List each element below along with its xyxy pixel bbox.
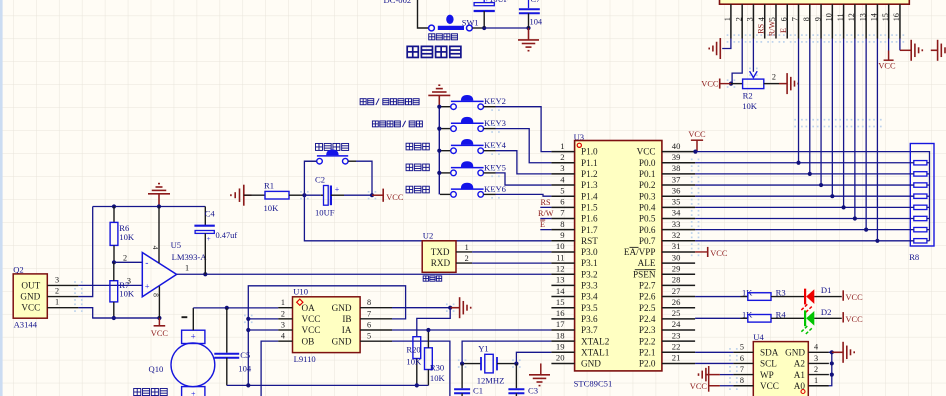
svg-text:OA: OA xyxy=(302,303,316,313)
svg-text:28: 28 xyxy=(672,275,681,285)
svg-text:GND: GND xyxy=(332,303,352,313)
svg-text:C3: C3 xyxy=(528,386,538,396)
svg-text:36: 36 xyxy=(672,185,681,195)
svg-text:1: 1 xyxy=(185,263,189,272)
svg-text:XTAL2: XTAL2 xyxy=(581,336,610,346)
wire Q2 OUT to opamp + xyxy=(78,284,142,286)
svg-text:P2.7: P2.7 xyxy=(639,281,656,291)
power VCC xyxy=(842,312,844,322)
svg-text:RST: RST xyxy=(581,236,598,246)
wire xyxy=(356,161,372,195)
svg-text:7: 7 xyxy=(740,365,744,374)
svg-text:XTAL1: XTAL1 xyxy=(581,347,610,357)
svg-text:PSEN: PSEN xyxy=(633,269,656,279)
svg-text:22: 22 xyxy=(672,342,681,352)
wire LCD pin2 to pot xyxy=(732,39,742,84)
svg-text:P3.4: P3.4 xyxy=(581,292,598,302)
svg-text:P2.4: P2.4 xyxy=(639,314,656,324)
svg-text:10K: 10K xyxy=(742,101,758,111)
LED D1 xyxy=(800,285,842,313)
label 双掷开关 xyxy=(429,34,458,40)
resistor network R8 xyxy=(909,144,934,263)
svg-text:P3.3: P3.3 xyxy=(581,281,598,291)
wire P0.3 bus xyxy=(695,195,914,197)
svg-text:P0.0: P0.0 xyxy=(639,158,656,168)
svg-text:ALE: ALE xyxy=(638,258,656,268)
svg-text:P3.2: P3.2 xyxy=(581,269,598,279)
connector U2 TXD/RXD xyxy=(422,231,472,273)
wire xyxy=(496,173,552,185)
svg-text:11: 11 xyxy=(556,252,564,262)
svg-text:16: 16 xyxy=(892,13,901,21)
wire U10 pin2 VCC xyxy=(248,318,278,320)
svg-text:GND: GND xyxy=(785,348,805,358)
wire VCC to R8 common xyxy=(695,152,929,241)
svg-text:1: 1 xyxy=(723,17,732,21)
wire P0.5 bus xyxy=(695,218,914,220)
ground xyxy=(709,38,720,59)
wire LCD data drop xyxy=(820,39,822,186)
svg-text:2: 2 xyxy=(123,253,127,262)
capacitor C4 0.47uf xyxy=(194,207,237,275)
resistor R30 10K xyxy=(425,330,446,385)
wire xyxy=(496,151,552,174)
svg-text:9: 9 xyxy=(560,230,564,240)
svg-text:LM393-A: LM393-A xyxy=(172,252,208,262)
svg-text:0.47uf: 0.47uf xyxy=(216,231,238,240)
svg-text:3: 3 xyxy=(560,163,564,173)
wire P0.1 bus xyxy=(695,173,914,175)
wire P0.0 bus xyxy=(695,162,914,164)
svg-text:29: 29 xyxy=(672,263,681,273)
svg-text:RXD: RXD xyxy=(431,258,451,268)
svg-text:U5: U5 xyxy=(171,240,182,250)
wire LCD pin15 to VCC xyxy=(888,39,890,51)
junction xyxy=(112,260,116,264)
svg-text:P1.2: P1.2 xyxy=(581,169,598,179)
svg-text:VCC: VCC xyxy=(690,382,708,391)
junction xyxy=(203,272,207,276)
svg-text:P0.7: P0.7 xyxy=(639,236,656,246)
op-amp U5 LM393-A xyxy=(123,207,207,319)
junction xyxy=(482,26,486,30)
wire gnd rail xyxy=(93,206,206,208)
power VCC at EA/VPP xyxy=(695,251,708,253)
svg-text:U2: U2 xyxy=(423,231,434,241)
svg-text:P2.2: P2.2 xyxy=(639,336,656,346)
eeprom U4 xyxy=(733,332,829,396)
junction xyxy=(808,172,812,176)
svg-text:IB: IB xyxy=(342,314,351,324)
svg-text:KEY5: KEY5 xyxy=(484,162,506,172)
svg-text:SCL: SCL xyxy=(760,359,777,369)
svg-text:P3.6: P3.6 xyxy=(581,314,598,324)
svg-text:2: 2 xyxy=(560,152,564,162)
pushbutton KEY4 xyxy=(440,139,507,154)
svg-text:P0.3: P0.3 xyxy=(639,191,656,201)
wire xyxy=(496,129,552,163)
svg-text:R8: R8 xyxy=(909,252,919,262)
wire vcc rail xyxy=(93,317,160,319)
connector LCD header (cut at top) xyxy=(720,0,910,39)
svg-text:C4: C4 xyxy=(205,208,216,218)
LED D2 xyxy=(800,307,842,335)
ground xyxy=(428,85,450,107)
wire P0.6 bus xyxy=(695,229,914,231)
svg-text:P1.3: P1.3 xyxy=(581,180,598,190)
ground at MCU pin20 xyxy=(540,363,542,374)
svg-text:SDA: SDA xyxy=(760,348,779,358)
svg-text:37: 37 xyxy=(672,174,681,184)
svg-text:32: 32 xyxy=(672,230,681,240)
resistor R4 1K xyxy=(695,309,805,322)
junction xyxy=(853,216,857,220)
svg-text:P2.6: P2.6 xyxy=(639,292,656,302)
label key KEY3 chinese xyxy=(372,121,422,127)
svg-text:R/W: R/W xyxy=(538,209,554,218)
ground xyxy=(832,342,854,363)
capacitor C2 10UF xyxy=(304,174,372,217)
svg-text:40: 40 xyxy=(672,141,681,151)
junction xyxy=(842,205,846,209)
svg-text:2: 2 xyxy=(734,17,743,21)
svg-text:VCC: VCC xyxy=(701,79,719,88)
svg-text:KEY6: KEY6 xyxy=(484,184,507,194)
svg-text:8: 8 xyxy=(802,17,811,21)
pushbutton KEY5 xyxy=(440,161,506,176)
svg-text:2: 2 xyxy=(772,72,776,81)
mcu U3 STC89C51 xyxy=(551,132,695,388)
svg-text:VCC: VCC xyxy=(637,147,656,157)
svg-text:8: 8 xyxy=(740,376,744,385)
svg-text:10K: 10K xyxy=(119,232,135,242)
wire LCD pin16 to ground xyxy=(899,39,901,51)
wire VCC pin8 xyxy=(720,385,734,387)
ground (right edge) xyxy=(931,40,946,61)
selection marks xyxy=(74,34,904,390)
wire U10 pin4 OB down xyxy=(261,341,278,396)
wire P0.4 bus xyxy=(695,206,914,208)
svg-text:3: 3 xyxy=(746,17,755,21)
svg-text:P0.4: P0.4 xyxy=(639,202,656,212)
svg-text:VCC: VCC xyxy=(302,314,321,324)
svg-text:6: 6 xyxy=(560,197,565,207)
wire Q2 GND up to gnd rail xyxy=(78,207,92,297)
wire P0.7 bus xyxy=(695,240,914,242)
power VCC xyxy=(382,189,384,202)
label 下载口 xyxy=(423,276,442,281)
svg-text:D2: D2 xyxy=(821,307,832,317)
ground xyxy=(911,40,922,61)
wire xyxy=(496,107,552,152)
svg-text:19: 19 xyxy=(556,342,565,352)
svg-text:1: 1 xyxy=(281,298,285,307)
resistor R1 10K xyxy=(244,180,305,213)
svg-text:P1.1: P1.1 xyxy=(581,158,598,168)
svg-text:4: 4 xyxy=(814,343,818,352)
junction xyxy=(437,171,441,175)
svg-text:Q2: Q2 xyxy=(13,264,24,274)
capacitor C1 xyxy=(454,364,483,396)
svg-text:+: + xyxy=(191,332,196,342)
svg-text:18: 18 xyxy=(556,330,565,340)
svg-text:10K: 10K xyxy=(406,357,422,367)
svg-text:A1: A1 xyxy=(794,370,806,380)
svg-text:3: 3 xyxy=(814,354,818,363)
svg-text:VCC: VCC xyxy=(21,303,40,313)
wire LCD data drop xyxy=(798,39,800,163)
svg-text:GND: GND xyxy=(581,359,601,369)
wire RST net xyxy=(304,195,551,241)
svg-text:1: 1 xyxy=(560,141,564,151)
power VCC xyxy=(842,290,844,300)
junction xyxy=(437,105,441,109)
svg-text:Y1: Y1 xyxy=(478,344,489,354)
svg-text:16: 16 xyxy=(556,308,565,318)
svg-text:RS: RS xyxy=(540,198,550,207)
capacitor 10UF (electrolytic, cut at top) xyxy=(474,0,509,28)
svg-text:R30: R30 xyxy=(430,363,444,373)
wire U10 pin5 GND down xyxy=(392,341,450,396)
wire U2 pin2 to P3.1 xyxy=(472,262,551,264)
svg-text:GND: GND xyxy=(332,336,352,346)
svg-text:12MHZ: 12MHZ xyxy=(477,376,505,386)
wire xyxy=(484,27,528,29)
junction xyxy=(370,193,374,197)
junction xyxy=(225,306,229,310)
svg-text:R20: R20 xyxy=(406,345,420,355)
svg-text:D1: D1 xyxy=(821,285,832,295)
svg-text:14: 14 xyxy=(556,286,565,296)
svg-text:30: 30 xyxy=(672,252,681,262)
svg-text:P1.7: P1.7 xyxy=(581,225,598,235)
svg-text:4: 4 xyxy=(757,17,766,21)
svg-text:25: 25 xyxy=(672,308,681,318)
svg-text:24: 24 xyxy=(672,319,681,329)
svg-text:R2: R2 xyxy=(743,91,753,101)
junction xyxy=(112,204,116,208)
svg-text:13: 13 xyxy=(556,275,565,285)
capacitor C5 104 xyxy=(214,308,252,386)
wire U10 pin3 VCC xyxy=(248,329,278,331)
svg-text:EA/VPP: EA/VPP xyxy=(624,247,656,257)
svg-text:GND: GND xyxy=(20,292,40,302)
svg-text:38: 38 xyxy=(672,163,681,173)
ground xyxy=(528,28,530,40)
resistor R3 1K xyxy=(695,288,805,301)
svg-text:5: 5 xyxy=(740,343,744,352)
wire LCD data drop xyxy=(854,39,856,219)
pushbutton KEY6 xyxy=(440,183,507,198)
junction xyxy=(875,239,879,243)
junction xyxy=(460,362,464,366)
svg-text:VCC: VCC xyxy=(878,61,896,70)
svg-text:7: 7 xyxy=(791,17,800,21)
junction xyxy=(693,150,697,154)
svg-text:C2: C2 xyxy=(315,174,325,184)
wire xyxy=(418,0,429,28)
svg-text:P2.3: P2.3 xyxy=(639,325,656,335)
svg-text:VCC: VCC xyxy=(386,193,404,202)
wire XTAL2 xyxy=(462,341,551,363)
junction xyxy=(302,193,306,197)
svg-text:P0.5: P0.5 xyxy=(639,214,656,224)
svg-text:Q10: Q10 xyxy=(149,364,164,374)
svg-text:2: 2 xyxy=(814,365,818,374)
junction xyxy=(246,317,250,321)
svg-text:6: 6 xyxy=(367,320,371,329)
wire LCD data drop xyxy=(843,39,845,208)
svg-text:P1.5: P1.5 xyxy=(581,202,598,212)
junction xyxy=(526,26,530,30)
wire bottom rail xyxy=(227,384,429,386)
resistor R20 10K xyxy=(406,337,422,386)
wire U10 pin6 IA to P3.7 xyxy=(392,329,551,331)
junction xyxy=(448,306,452,310)
resistor R7 10K xyxy=(110,262,135,318)
svg-text:C7: C7 xyxy=(531,0,541,4)
power VCC rail for WP/VCC xyxy=(709,366,720,392)
svg-text:17: 17 xyxy=(556,319,565,329)
label 直流电机 xyxy=(134,388,168,395)
svg-text:6: 6 xyxy=(779,17,788,21)
resistor R6 10K xyxy=(110,207,135,263)
junction xyxy=(729,82,733,86)
svg-text:E: E xyxy=(779,28,788,33)
junction xyxy=(437,149,441,153)
capacitor C3 xyxy=(508,364,538,396)
svg-text:P0.6: P0.6 xyxy=(639,225,656,235)
label key KEY6 chinese xyxy=(406,186,429,193)
svg-text:2: 2 xyxy=(281,309,285,318)
svg-text:+: + xyxy=(335,185,340,194)
ground xyxy=(787,73,798,94)
wire LCD data drop xyxy=(831,39,833,197)
svg-text:P1.6: P1.6 xyxy=(581,214,598,224)
svg-text:E: E xyxy=(540,220,545,229)
wire SCL to P2.0 xyxy=(695,362,733,364)
net label E xyxy=(540,229,551,231)
svg-text:OUT: OUT xyxy=(21,280,40,290)
potentiometer R2 10K xyxy=(731,72,779,110)
svg-text:34: 34 xyxy=(672,208,681,218)
wire U2 pin1 to P3.0 xyxy=(472,251,551,253)
svg-text:31: 31 xyxy=(672,241,681,251)
svg-text:10UF: 10UF xyxy=(315,207,335,217)
svg-text:10: 10 xyxy=(825,13,834,21)
label key KEY5 chinese xyxy=(406,164,429,171)
ground xyxy=(699,368,709,382)
wire U4 address tie xyxy=(829,352,832,385)
svg-text:21: 21 xyxy=(672,353,681,363)
svg-text:8: 8 xyxy=(367,298,371,307)
power VCC xyxy=(154,318,166,326)
svg-text:P3.7: P3.7 xyxy=(581,325,598,335)
svg-text:7: 7 xyxy=(560,208,565,218)
svg-text:P1.0: P1.0 xyxy=(581,147,598,157)
wire SDA to P2.1 xyxy=(695,351,733,353)
net label R/W xyxy=(540,218,551,220)
svg-text:11: 11 xyxy=(836,13,845,21)
svg-text:2: 2 xyxy=(55,287,59,296)
switch SW1 xyxy=(429,15,479,31)
svg-text:+: + xyxy=(145,281,150,291)
svg-text:12: 12 xyxy=(847,13,856,21)
svg-text:P2.5: P2.5 xyxy=(639,303,656,313)
svg-text:5: 5 xyxy=(560,185,564,195)
label key KEY2 chinese xyxy=(360,98,419,104)
svg-text:1: 1 xyxy=(465,243,469,252)
svg-text:1: 1 xyxy=(55,298,59,307)
svg-text:WP: WP xyxy=(760,370,774,380)
label 电源接口 xyxy=(407,46,461,57)
svg-text:39: 39 xyxy=(672,152,681,162)
junction xyxy=(864,228,868,232)
junction xyxy=(112,316,116,320)
svg-text:SW1: SW1 xyxy=(462,18,479,27)
svg-text:10K: 10K xyxy=(119,289,135,299)
svg-text:3: 3 xyxy=(127,276,131,285)
svg-text:VCC: VCC xyxy=(846,293,864,302)
svg-text:3: 3 xyxy=(55,275,59,284)
svg-text:26: 26 xyxy=(672,297,681,307)
wire XTAL1 xyxy=(516,352,551,363)
wire Q2 VCC down to vcc rail xyxy=(78,308,159,318)
svg-text:STC89C51: STC89C51 xyxy=(574,378,613,388)
svg-text:DC-002: DC-002 xyxy=(384,0,412,5)
svg-text:VCC: VCC xyxy=(710,249,728,258)
svg-text:15: 15 xyxy=(556,297,565,307)
capacitor C7 104 xyxy=(519,0,543,28)
svg-text:2: 2 xyxy=(465,254,469,263)
svg-text:10: 10 xyxy=(556,241,565,251)
svg-text:KEY3: KEY3 xyxy=(484,118,506,128)
wire WP xyxy=(720,374,734,376)
svg-text:13: 13 xyxy=(858,13,867,21)
wire key bus xyxy=(438,107,440,195)
svg-text:L9110: L9110 xyxy=(294,354,316,364)
junction xyxy=(246,383,250,387)
svg-text:+: + xyxy=(207,234,211,243)
svg-text:P1.4: P1.4 xyxy=(581,191,598,201)
wire LCD data drop xyxy=(865,39,867,230)
motor Q10 xyxy=(149,330,215,396)
wire node A to opamp - xyxy=(114,261,142,263)
svg-text:15: 15 xyxy=(881,13,890,21)
wire LCD pin1 to ground xyxy=(722,39,731,49)
crystal Y1 12MHZ xyxy=(462,344,516,386)
svg-text:U10: U10 xyxy=(293,287,308,297)
svg-text:14: 14 xyxy=(870,13,879,21)
wire U10 pin8 GND xyxy=(392,307,450,309)
power VCC at pin40 xyxy=(691,140,703,151)
wire xyxy=(304,161,316,195)
junction xyxy=(437,127,441,131)
pushbutton KEY2 xyxy=(440,95,506,109)
svg-text:10K: 10K xyxy=(264,203,280,213)
svg-text:A2: A2 xyxy=(794,359,806,369)
ground xyxy=(450,297,471,318)
net label RS xyxy=(540,206,551,208)
wire motor to L9110 OA xyxy=(182,308,279,330)
ground xyxy=(231,185,252,206)
svg-text:P3.5: P3.5 xyxy=(581,303,598,313)
svg-text:P2.0: P2.0 xyxy=(639,359,656,369)
wire LCD data drop xyxy=(876,39,878,241)
label key KEY4 chinese xyxy=(406,143,429,150)
svg-text:VCC: VCC xyxy=(688,130,706,139)
junction xyxy=(796,161,800,165)
